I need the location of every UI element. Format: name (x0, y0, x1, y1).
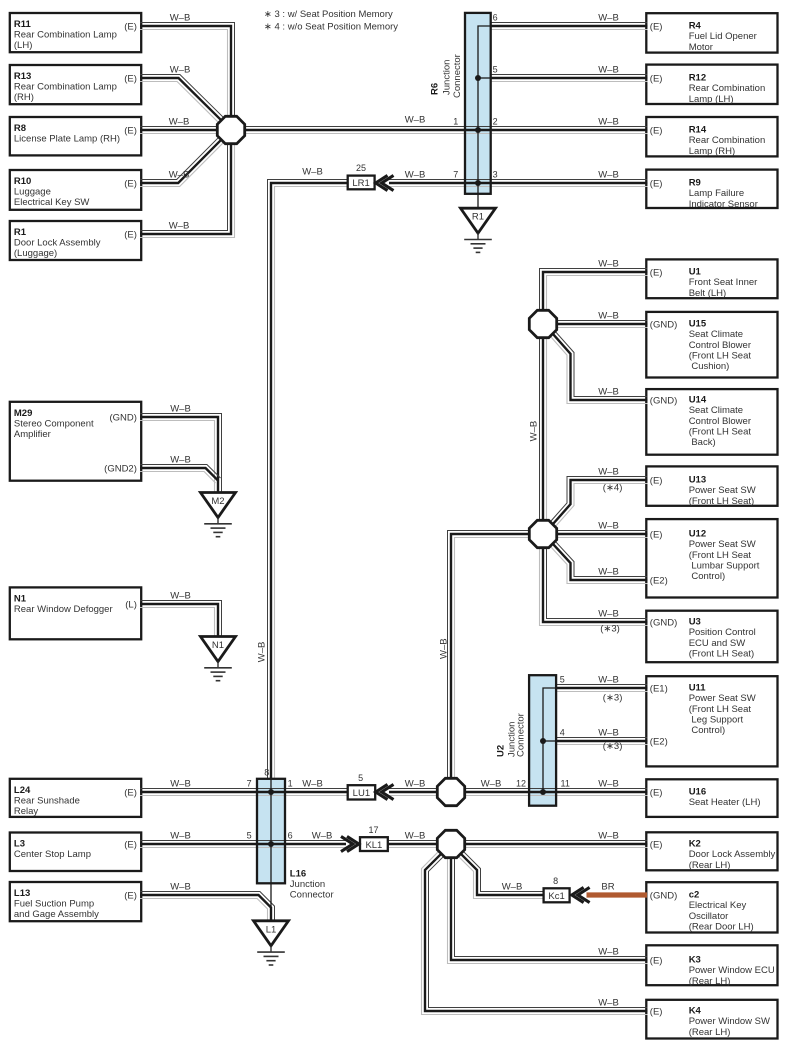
svg-text:(Rear LH): (Rear LH) (689, 860, 731, 871)
svg-text:Stereo Component: Stereo Component (14, 418, 94, 429)
svg-text:Rear Combination Lamp: Rear Combination Lamp (14, 30, 117, 41)
svg-text:W–B: W–B (170, 831, 191, 842)
svg-text:Lamp Failure: Lamp Failure (689, 188, 744, 199)
svg-text:Power Seat SW: Power Seat SW (689, 485, 756, 496)
svg-text:Connector: Connector (452, 54, 463, 98)
svg-text:Door Lock Assembly: Door Lock Assembly (14, 238, 101, 249)
svg-text:(Front LH Seat): (Front LH Seat) (689, 648, 754, 659)
svg-text:W–B: W–B (481, 779, 502, 790)
svg-text:(Front LH Seat: (Front LH Seat (689, 426, 752, 437)
svg-text:(∗3): (∗3) (600, 624, 620, 635)
svg-text:5: 5 (493, 65, 498, 75)
svg-text:Seat Climate: Seat Climate (689, 405, 743, 416)
svg-text:Seat Heater (LH): Seat Heater (LH) (689, 797, 761, 808)
svg-text:Rear Window Defogger: Rear Window Defogger (14, 604, 113, 615)
svg-text:Cushion): Cushion) (689, 361, 730, 372)
svg-text:W–B: W–B (598, 311, 619, 322)
svg-text:L1: L1 (266, 924, 277, 935)
svg-text:W–B: W–B (170, 455, 191, 466)
svg-text:(E): (E) (124, 788, 137, 799)
svg-text:(L): (L) (125, 600, 137, 611)
svg-text:(Rear Door LH): (Rear Door LH) (689, 921, 754, 932)
svg-text:Electrical Key: Electrical Key (689, 900, 747, 911)
svg-text:Rear Combination Lamp: Rear Combination Lamp (14, 82, 117, 93)
svg-text:W–B: W–B (598, 567, 619, 578)
svg-text:(GND): (GND) (650, 891, 677, 902)
svg-text:ECU and SW: ECU and SW (689, 638, 746, 649)
svg-text:(E2): (E2) (650, 737, 668, 748)
svg-text:W–B: W–B (598, 779, 619, 790)
svg-text:(∗3): (∗3) (603, 741, 623, 752)
svg-text:U12: U12 (689, 529, 706, 540)
svg-text:(E): (E) (124, 179, 137, 190)
svg-text:(E): (E) (650, 840, 663, 851)
svg-text:Connector: Connector (516, 713, 527, 757)
svg-text:W–B: W–B (302, 779, 323, 790)
svg-text:Power Window SW: Power Window SW (689, 1016, 770, 1027)
svg-text:(E): (E) (650, 530, 663, 541)
svg-text:7: 7 (247, 779, 252, 789)
svg-text:c2: c2 (689, 890, 700, 901)
svg-text:W–B: W–B (598, 521, 619, 532)
svg-text:K4: K4 (689, 1006, 702, 1017)
svg-text:(E): (E) (650, 22, 663, 33)
svg-text:Rear Sunshade: Rear Sunshade (14, 795, 80, 806)
svg-text:(∗4): (∗4) (603, 482, 623, 493)
svg-text:Control Blower: Control Blower (689, 340, 751, 351)
svg-text:Junction: Junction (290, 879, 325, 890)
svg-text:(E): (E) (650, 268, 663, 279)
svg-text:Luggage: Luggage (14, 187, 51, 198)
svg-text:Control Blower: Control Blower (689, 416, 751, 427)
svg-text:W–B: W–B (170, 779, 191, 790)
svg-text:(GND2): (GND2) (104, 464, 137, 475)
svg-text:U3: U3 (689, 617, 701, 628)
svg-text:W–B: W–B (598, 259, 619, 270)
svg-text:(E): (E) (650, 179, 663, 190)
svg-text:(Front LH Seat): (Front LH Seat) (689, 496, 754, 507)
svg-text:1: 1 (453, 117, 458, 127)
svg-text:W–B: W–B (405, 115, 426, 126)
svg-text:W–B: W–B (439, 638, 450, 659)
svg-text:W–B: W–B (169, 221, 190, 232)
svg-text:W–B: W–B (169, 170, 190, 181)
svg-text:25: 25 (356, 163, 366, 173)
svg-text:5: 5 (560, 675, 565, 685)
svg-text:W–B: W–B (598, 947, 619, 958)
svg-text:W–B: W–B (170, 13, 191, 24)
svg-text:(GND): (GND) (109, 413, 136, 424)
svg-text:BR: BR (601, 882, 614, 893)
svg-text:6: 6 (288, 831, 293, 841)
svg-text:12: 12 (516, 779, 526, 789)
svg-text:R13: R13 (14, 71, 31, 82)
svg-text:Lamp (RH): Lamp (RH) (689, 146, 735, 157)
svg-text:L24: L24 (14, 785, 31, 796)
svg-text:(E): (E) (124, 230, 137, 241)
svg-text:(RH): (RH) (14, 92, 34, 103)
svg-text:M2: M2 (211, 496, 224, 507)
svg-text:Fuel Lid Opener: Fuel Lid Opener (689, 31, 757, 42)
svg-text:(GND): (GND) (650, 618, 677, 629)
svg-text:Lumbar Support: Lumbar Support (689, 560, 760, 571)
svg-text:Center Stop Lamp: Center Stop Lamp (14, 849, 91, 860)
svg-text:U16: U16 (689, 787, 706, 798)
svg-text:R1: R1 (14, 227, 27, 238)
svg-text:8: 8 (553, 876, 558, 886)
svg-text:(Front LH Seat: (Front LH Seat (689, 550, 752, 561)
svg-text:Rear Combination: Rear Combination (689, 83, 766, 94)
svg-text:R1: R1 (472, 212, 484, 223)
svg-text:W–B: W–B (302, 167, 323, 178)
svg-text:W–B: W–B (170, 591, 191, 602)
svg-text:Power Seat SW: Power Seat SW (689, 539, 756, 550)
svg-text:W–B: W–B (256, 642, 267, 663)
svg-text:W–B: W–B (598, 728, 619, 739)
svg-text:L16: L16 (290, 868, 306, 879)
svg-text:(E): (E) (124, 891, 137, 902)
svg-text:W–B: W–B (598, 675, 619, 686)
svg-text:∗ 4 : w/o Seat Position Memory: ∗ 4 : w/o Seat Position Memory (264, 21, 398, 32)
svg-text:(E): (E) (650, 956, 663, 967)
svg-text:4: 4 (560, 728, 565, 738)
svg-text:W–B: W–B (598, 117, 619, 128)
svg-text:W–B: W–B (169, 117, 190, 128)
svg-text:2: 2 (493, 117, 498, 127)
svg-text:(Rear LH): (Rear LH) (689, 976, 731, 987)
svg-text:Relay: Relay (14, 806, 39, 817)
svg-text:6: 6 (493, 13, 498, 23)
svg-text:(E): (E) (650, 788, 663, 799)
svg-text:(Rear LH): (Rear LH) (689, 1027, 731, 1038)
svg-text:Connector: Connector (290, 889, 334, 900)
svg-text:(Luggage): (Luggage) (14, 248, 57, 259)
svg-text:Power Seat SW: Power Seat SW (689, 693, 756, 704)
svg-text:(E): (E) (650, 1007, 663, 1018)
svg-text:KL1: KL1 (365, 840, 382, 851)
svg-text:U13: U13 (689, 475, 706, 486)
svg-text:Control): Control) (689, 725, 725, 736)
svg-text:and Gage Assembly: and Gage Assembly (14, 909, 99, 920)
svg-text:W–B: W–B (598, 13, 619, 24)
svg-text:(E): (E) (650, 74, 663, 85)
svg-text:7: 7 (453, 170, 458, 180)
svg-text:U14: U14 (689, 395, 707, 406)
svg-text:W–B: W–B (598, 65, 619, 76)
svg-text:Control): Control) (689, 571, 725, 582)
svg-text:U2: U2 (496, 745, 507, 757)
svg-text:M29: M29 (14, 408, 32, 419)
svg-text:(LH): (LH) (14, 40, 32, 51)
svg-text:(Front LH Seat: (Front LH Seat (689, 350, 752, 361)
svg-text:W–B: W–B (598, 467, 619, 478)
svg-text:1: 1 (288, 779, 293, 789)
svg-text:W–B: W–B (529, 421, 540, 442)
svg-text:W–B: W–B (405, 779, 426, 790)
svg-text:W–B: W–B (598, 831, 619, 842)
svg-text:∗ 3 : w/ Seat Position Memory: ∗ 3 : w/ Seat Position Memory (264, 9, 393, 20)
svg-text:(GND): (GND) (650, 320, 677, 331)
svg-text:R11: R11 (14, 19, 32, 30)
svg-text:(Front LH Seat: (Front LH Seat (689, 704, 752, 715)
svg-text:L13: L13 (14, 888, 30, 899)
svg-text:(E1): (E1) (650, 684, 668, 695)
svg-text:R8: R8 (14, 123, 26, 134)
svg-text:L3: L3 (14, 839, 25, 850)
svg-text:Position Control: Position Control (689, 627, 756, 638)
svg-text:K3: K3 (689, 955, 701, 966)
svg-text:11: 11 (561, 779, 570, 789)
svg-text:Kc1: Kc1 (548, 891, 564, 902)
svg-text:LU1: LU1 (353, 788, 370, 799)
svg-text:R12: R12 (689, 73, 706, 84)
svg-text:Front Seat Inner: Front Seat Inner (689, 277, 758, 288)
svg-text:R9: R9 (689, 178, 701, 189)
svg-text:17: 17 (368, 825, 378, 835)
svg-text:W–B: W–B (598, 998, 619, 1009)
svg-text:W–B: W–B (598, 170, 619, 181)
svg-text:8: 8 (264, 767, 269, 777)
svg-text:U15: U15 (689, 319, 707, 330)
svg-text:Oscillator: Oscillator (689, 911, 729, 922)
svg-text:N1: N1 (14, 593, 27, 604)
svg-text:(∗3): (∗3) (603, 693, 623, 704)
svg-text:Indicator Sensor: Indicator Sensor (689, 199, 758, 210)
svg-text:(E): (E) (124, 74, 137, 85)
svg-text:(E): (E) (124, 22, 137, 33)
svg-text:U11: U11 (689, 683, 707, 694)
svg-text:W–B: W–B (598, 609, 619, 620)
svg-text:(E): (E) (124, 126, 137, 137)
svg-text:LR1: LR1 (352, 178, 369, 189)
svg-text:Back): Back) (689, 437, 716, 448)
svg-text:W–B: W–B (312, 831, 333, 842)
svg-text:(E): (E) (650, 476, 663, 487)
svg-text:Door Lock Assembly: Door Lock Assembly (689, 849, 776, 860)
svg-text:W–B: W–B (170, 65, 191, 76)
svg-text:W–B: W–B (598, 387, 619, 398)
svg-text:(E): (E) (650, 126, 663, 137)
svg-text:5: 5 (358, 773, 363, 783)
svg-text:N1: N1 (212, 640, 224, 651)
svg-text:(E): (E) (124, 840, 137, 851)
svg-text:Rear Combination: Rear Combination (689, 135, 766, 146)
svg-text:Leg Support: Leg Support (689, 714, 744, 725)
svg-text:(GND): (GND) (650, 396, 677, 407)
svg-text:U1: U1 (689, 267, 702, 278)
svg-text:W–B: W–B (170, 882, 191, 893)
svg-text:R6: R6 (429, 83, 440, 95)
svg-text:W–B: W–B (170, 404, 191, 415)
svg-text:W–B: W–B (405, 170, 426, 181)
svg-text:K2: K2 (689, 839, 701, 850)
svg-text:Seat Climate: Seat Climate (689, 329, 743, 340)
svg-text:3: 3 (493, 170, 498, 180)
svg-text:R10: R10 (14, 176, 31, 187)
svg-text:W–B: W–B (405, 831, 426, 842)
svg-text:Amplifier: Amplifier (14, 429, 51, 440)
svg-text:Lamp (LH): Lamp (LH) (689, 94, 734, 105)
svg-text:(E2): (E2) (650, 576, 668, 587)
svg-text:Fuel Suction Pump: Fuel Suction Pump (14, 899, 94, 910)
svg-text:W–B: W–B (502, 882, 523, 893)
svg-text:Belt (LH): Belt (LH) (689, 288, 726, 299)
svg-text:R14: R14 (689, 125, 707, 136)
svg-text:Power Window ECU: Power Window ECU (689, 965, 775, 976)
svg-text:5: 5 (247, 831, 252, 841)
svg-text:Electrical Key SW: Electrical Key SW (14, 197, 90, 208)
svg-text:Motor: Motor (689, 42, 713, 53)
svg-text:License Plate Lamp (RH): License Plate Lamp (RH) (14, 134, 120, 145)
svg-text:R4: R4 (689, 21, 702, 32)
